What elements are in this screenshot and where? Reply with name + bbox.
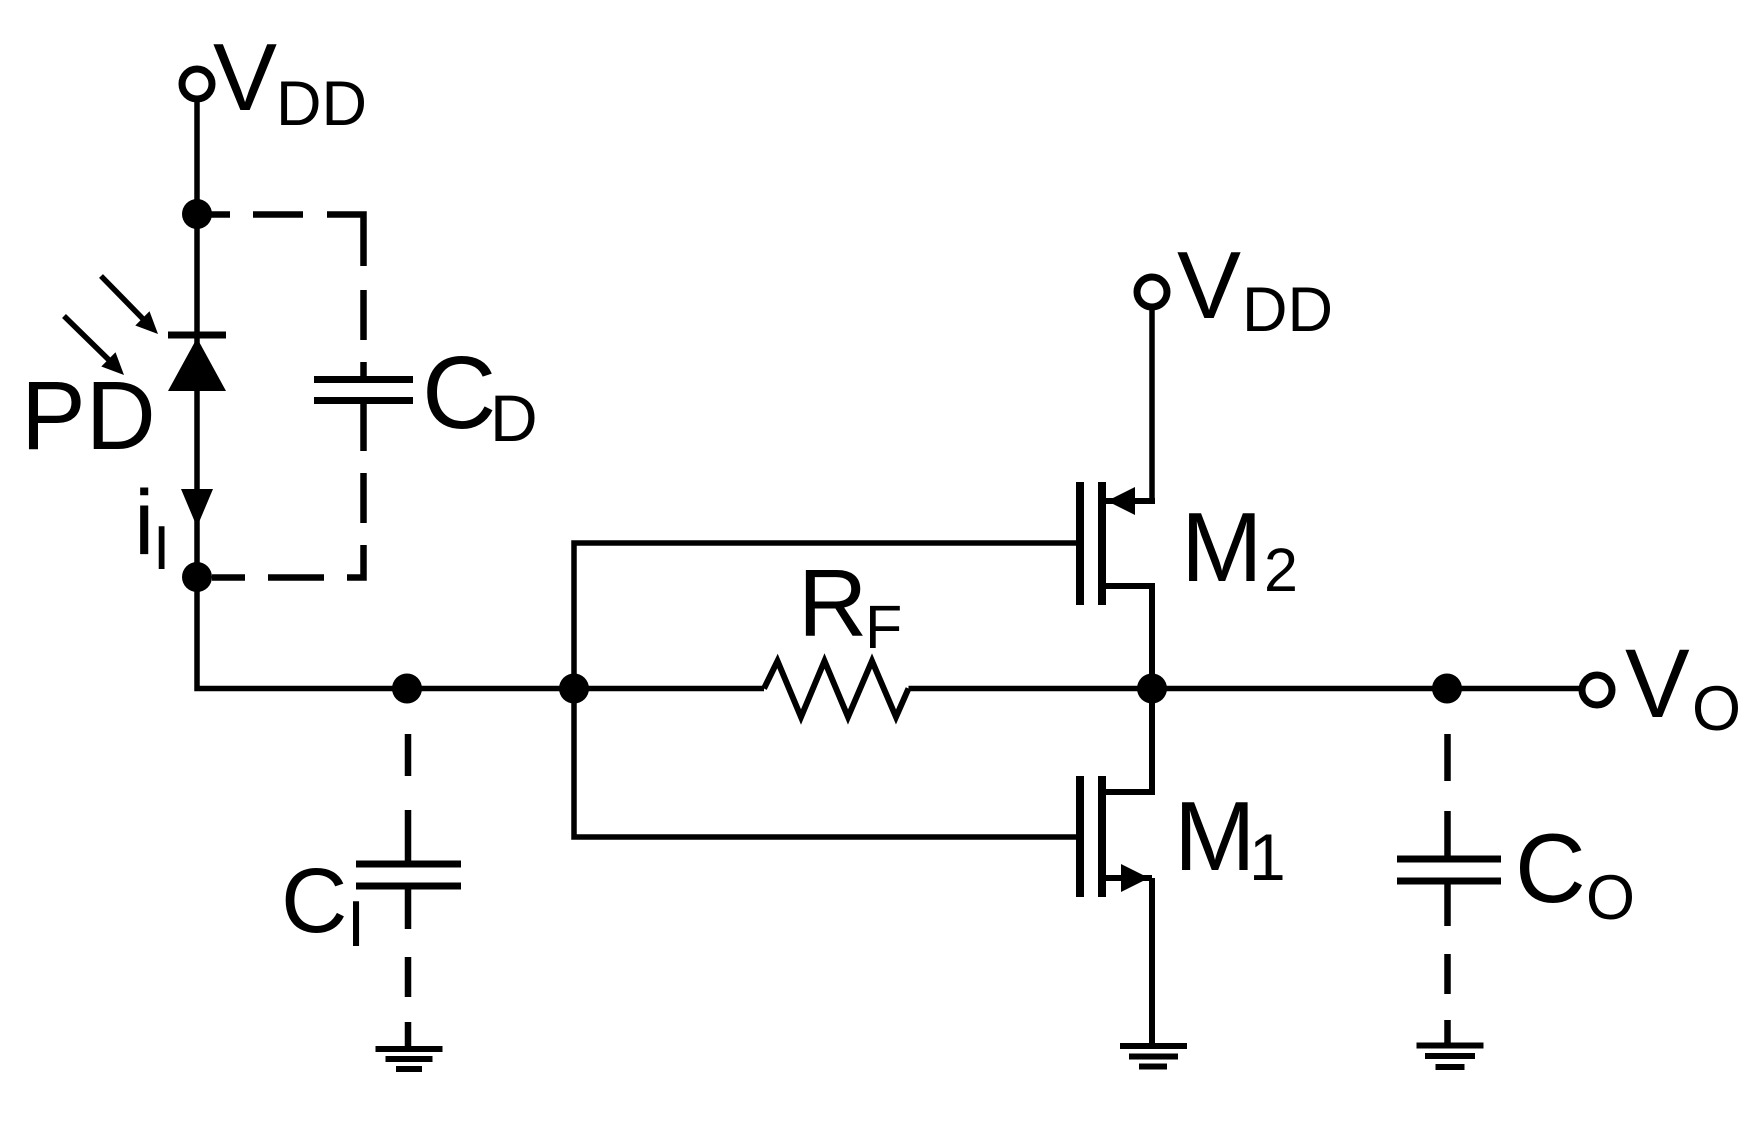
label iI <box>134 472 170 583</box>
transistor M2 channel bar <box>1098 482 1106 605</box>
ground (below M1) <box>1120 1046 1187 1067</box>
light arrow 1 <box>101 276 158 334</box>
svg-text:F: F <box>865 593 902 661</box>
wire VDD1 to node A <box>194 102 200 213</box>
svg-text:PD: PD <box>21 361 156 470</box>
transistor M1 drain <box>1106 688 1152 792</box>
label CI <box>281 850 365 960</box>
svg-text:1: 1 <box>1249 820 1286 894</box>
dashed wire capacitor CI to ground <box>405 889 412 1048</box>
label CO <box>1515 813 1635 933</box>
wire node A to node B <box>194 214 200 577</box>
node C <box>392 674 422 704</box>
dashed wire capacitor CO to ground <box>1444 884 1451 1045</box>
wire M1 source to ground <box>1149 878 1155 1043</box>
label VO <box>1625 629 1741 744</box>
wire resistor RF to node E <box>909 686 1153 692</box>
node D <box>559 674 589 704</box>
terminal VDD2 <box>1137 277 1167 307</box>
transistor M2 gate bar <box>1076 482 1084 605</box>
terminal VO <box>1582 675 1612 705</box>
label VDD2 <box>1177 232 1333 345</box>
transistor M1 source and arrow <box>1106 864 1152 892</box>
svg-text:C: C <box>422 335 496 450</box>
svg-text:C: C <box>281 850 347 952</box>
wire node B to node C <box>197 577 407 689</box>
dashed wire node A to capacitor CD top <box>205 215 364 380</box>
label M1 <box>1174 781 1286 894</box>
dashed wire capacitor CD bottom to node B <box>212 404 364 578</box>
svg-text:M: M <box>1174 781 1256 891</box>
svg-text:C: C <box>1515 813 1586 923</box>
label RF <box>798 550 902 661</box>
label VDD1 <box>213 24 367 139</box>
light arrow 2 <box>64 316 124 375</box>
svg-text:V: V <box>1625 629 1690 738</box>
svg-text:2: 2 <box>1264 536 1298 604</box>
photodiode PD <box>168 335 226 391</box>
ground (below CO) <box>1417 1046 1484 1068</box>
wire node C to node D <box>407 686 574 692</box>
wire node F to output terminal <box>1447 686 1580 692</box>
svg-text:DD: DD <box>1242 275 1333 345</box>
svg-text:V: V <box>213 24 277 131</box>
ground (below CI) <box>376 1049 443 1069</box>
svg-text:O: O <box>1692 674 1741 744</box>
svg-text:M: M <box>1181 492 1263 602</box>
wire node E to node F <box>1152 686 1447 692</box>
svg-text:DD: DD <box>276 69 367 139</box>
transistor M1 gate bar <box>1076 776 1084 897</box>
terminal VDD1 <box>182 69 212 99</box>
capacitor CD <box>314 380 413 401</box>
svg-text:D: D <box>490 381 538 455</box>
svg-text:O: O <box>1586 863 1635 933</box>
transistor M2 drain <box>1106 586 1152 688</box>
wire node D to M2 gate <box>574 543 1076 689</box>
label CD <box>422 335 538 455</box>
transistor M1 channel bar <box>1098 776 1106 897</box>
resistor RF <box>764 661 909 717</box>
current arrow iI <box>181 489 213 527</box>
svg-text:i: i <box>134 472 154 574</box>
wire node D to M1 gate <box>574 689 1076 838</box>
label M2 <box>1181 492 1298 604</box>
svg-text:R: R <box>798 550 867 657</box>
node B <box>182 562 212 592</box>
node A <box>182 199 212 229</box>
dashed wire node C to capacitor CI <box>405 734 412 864</box>
transistor M2 source and arrow <box>1106 487 1155 515</box>
svg-text:I: I <box>347 887 365 960</box>
node F <box>1432 674 1462 704</box>
wire node D to resistor RF <box>574 686 764 692</box>
node E <box>1137 674 1167 704</box>
svg-text:V: V <box>1177 232 1241 339</box>
capacitor CI <box>356 864 461 886</box>
dashed wire node F to capacitor CO <box>1444 734 1451 859</box>
capacitor CO <box>1397 859 1501 881</box>
svg-text:I: I <box>153 514 170 583</box>
wire VDD2 to M2 source <box>1149 310 1155 501</box>
